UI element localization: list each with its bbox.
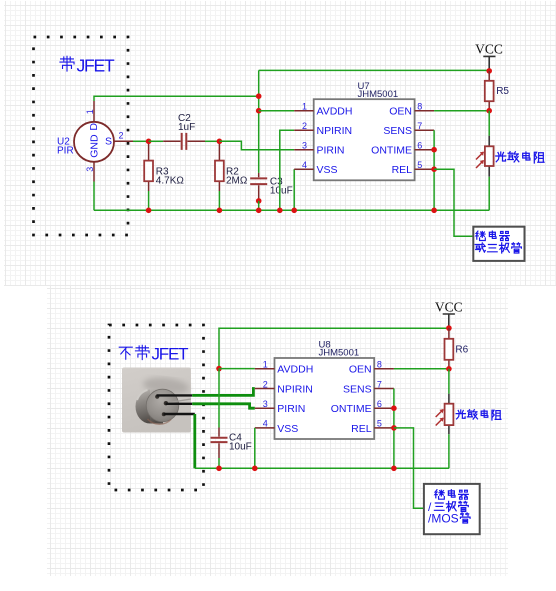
- node: REL tie: [391, 425, 397, 431]
- pin 1 of U2: [85, 101, 95, 122]
- wire U2 pin2 to node: [133, 140, 149, 142]
- svg-text:10uF: 10uF: [229, 441, 252, 452]
- U7 pin 7 SENS: [383, 121, 434, 137]
- svg-text:8: 8: [377, 360, 382, 370]
- wire SENS vertical down to ground rail: [393, 389, 395, 469]
- node: NPIRIN net on ground rail: [277, 208, 283, 214]
- wire U2 pin1 to VCC net vertical: [94, 96, 259, 101]
- svg-text:ONTIME: ONTIME: [331, 403, 372, 415]
- U8 pin 4 VSS: [255, 419, 299, 435]
- photoresistor (bottom): [436, 369, 454, 469]
- wire NPIRIN pin2 of U7 to ground rail: [280, 130, 294, 210]
- svg-text:VCC: VCC: [475, 41, 503, 56]
- U8 pin 1 AVDDH: [255, 360, 313, 376]
- svg-text:REL: REL: [392, 164, 413, 176]
- svg-text:1: 1: [302, 102, 307, 112]
- relay box (top): 继电器/或三极管: [473, 227, 524, 261]
- svg-text:PIRIN: PIRIN: [317, 145, 345, 157]
- wire C2 to R2 node: [205, 140, 219, 142]
- svg-text:VSS: VSS: [277, 423, 298, 435]
- svg-text:VCC: VCC: [435, 300, 463, 315]
- svg-text:6: 6: [377, 399, 382, 409]
- svg-text:SENS: SENS: [343, 383, 372, 395]
- PIR sensor U2 (circle symbol): [74, 122, 114, 162]
- svg-text:ONTIME: ONTIME: [371, 145, 412, 157]
- svg-text:REL: REL: [351, 423, 372, 435]
- grid lower sheet: [47, 286, 508, 576]
- label 不带JFET: [119, 345, 188, 364]
- capacitor C4: [211, 369, 252, 469]
- op-amp-IC U7 JHM5001 body: [314, 81, 415, 180]
- photoresistor (top): [476, 111, 494, 211]
- svg-text:R5: R5: [496, 86, 509, 97]
- label 光敏电阻 (bottom): [456, 410, 501, 420]
- ground rail (bottom circuit): [195, 467, 449, 469]
- node: C3 net on ground rail: [256, 208, 262, 214]
- svg-text:6: 6: [417, 141, 422, 151]
- svg-text:OEN: OEN: [389, 106, 412, 118]
- U7 pin 8 OEN: [389, 102, 434, 118]
- svg-text:3: 3: [85, 167, 95, 172]
- svg-text:5: 5: [377, 419, 382, 429]
- node: vertical meets pin1 wire: [256, 93, 262, 99]
- U7 pin 5 REL: [392, 160, 435, 176]
- wire REL to relay box: [434, 169, 473, 236]
- U8 pin 7 SENS: [343, 379, 394, 395]
- node: VCC junction: [486, 68, 492, 74]
- svg-text:/MOS: /MOS: [428, 511, 459, 525]
- svg-text:D: D: [88, 123, 100, 131]
- pin 3 of U2: [85, 162, 95, 182]
- svg-text:PIR: PIR: [57, 146, 74, 157]
- wire U2 pin3 down to ground rail: [93, 182, 95, 211]
- wire OEN to R5 bottom node: [434, 110, 489, 112]
- svg-text:2: 2: [302, 121, 307, 131]
- wire VSS pin4 of U7 to ground rail: [293, 169, 295, 210]
- node: junction R2 top: [217, 139, 223, 145]
- node: R5 bottom / OEN: [486, 108, 492, 114]
- sensor lead 2 (drawn black): [166, 403, 193, 405]
- wire R2 node to PIRIN pin 3 of U7 (jog): [219, 141, 294, 149]
- node: SENS net on ground rail: [431, 208, 437, 214]
- svg-text:4: 4: [302, 160, 307, 170]
- node: SENS net on ground rail: [391, 466, 397, 472]
- node: VSS net on ground rail: [252, 466, 258, 472]
- pin 2 of U2: [114, 131, 133, 142]
- svg-text:8: 8: [417, 102, 422, 112]
- svg-text:AVDDH: AVDDH: [277, 364, 313, 376]
- node: R6 bottom / OEN: [446, 366, 452, 372]
- svg-text:JHM5001: JHM5001: [358, 89, 399, 100]
- svg-text:OEN: OEN: [349, 364, 372, 376]
- svg-text:JHM5001: JHM5001: [319, 347, 360, 358]
- U2 reference label: [57, 137, 74, 157]
- sensor lead 3 (drawn black): [164, 413, 195, 415]
- wire AVDDH pin1 of U7: [259, 110, 295, 112]
- svg-text:PIRIN: PIRIN: [277, 403, 305, 415]
- PIR sensor photo: [122, 368, 191, 433]
- svg-text:S: S: [105, 136, 112, 148]
- svg-text:4.7KΩ: 4.7KΩ: [156, 176, 185, 187]
- svg-text:10uF: 10uF: [270, 185, 293, 196]
- svg-text:3: 3: [302, 141, 307, 151]
- capacitor C3: [250, 173, 292, 201]
- relay box (bottom): 继电器/三极管/MOS管: [424, 484, 480, 534]
- svg-text:R6: R6: [455, 344, 468, 355]
- wire AVDDH pin1 of U8: [219, 368, 255, 370]
- wire C3 to ground rail: [258, 201, 260, 210]
- U7 pin 6 ONTIME: [371, 141, 434, 157]
- svg-text:2: 2: [119, 131, 124, 141]
- wire OEN to R6 bottom node: [394, 368, 449, 370]
- U7 pin 1 AVDDH: [294, 102, 352, 118]
- wire SENS vertical down to ground rail: [433, 130, 435, 210]
- thick wire lead2 to PIRIN of U8: [192, 404, 255, 408]
- wire VSS pin4 of U8 to ground rail: [254, 428, 256, 468]
- wire REL to relay box (bottom): [394, 428, 424, 508]
- svg-text:JFET: JFET: [77, 56, 116, 76]
- svg-text:1uF: 1uF: [178, 122, 195, 133]
- node: junction R3 top: [146, 139, 152, 145]
- node: REL tie: [431, 166, 437, 172]
- resistor R2: [215, 141, 248, 210]
- dashed annotation box (without JFET): [109, 325, 204, 490]
- U8 pin 5 REL: [351, 419, 394, 435]
- U7 pin 2 NPIRIN: [294, 121, 352, 137]
- resistor R3: [144, 141, 184, 210]
- IC U8 JHM5001 body: [275, 340, 375, 439]
- svg-text:VSS: VSS: [317, 164, 338, 176]
- U8 pin 8 OEN: [349, 360, 394, 376]
- top rail to VCC (bottom circuit): [219, 328, 449, 368]
- U7 pin 3 PIRIN: [294, 141, 344, 157]
- node: VCC junction (bottom): [446, 325, 452, 331]
- grid upper sheet: [4, 1, 556, 286]
- wire node to C2: [149, 140, 164, 142]
- node: C3 bottom pin end: [256, 198, 262, 204]
- svg-text:NPIRIN: NPIRIN: [277, 383, 313, 395]
- svg-text:3: 3: [263, 399, 268, 409]
- node: vertical meets AVDDH wire: [256, 108, 262, 114]
- node: ONTIME tie: [391, 405, 397, 411]
- node: ONTIME tie: [431, 147, 437, 153]
- thick wire lead3 down to ground rail: [193, 414, 196, 468]
- sensor lead 1 (drawn black): [157, 394, 193, 396]
- node: C4 bottom on ground rail: [216, 466, 222, 472]
- thick wire lead1 to NPIRIN of U8: [192, 389, 255, 396]
- svg-text:7: 7: [377, 379, 382, 389]
- resistor R5: [485, 71, 510, 111]
- ground rail (bottom horizontal wire): [94, 209, 489, 211]
- label 带JFET: [60, 56, 115, 76]
- U8 pin 6 ONTIME: [331, 399, 394, 415]
- U7 pin 4 VSS: [294, 160, 337, 176]
- svg-text:JFET: JFET: [152, 345, 189, 364]
- top rail wire to VCC: [259, 69, 490, 71]
- svg-text:5: 5: [417, 160, 422, 170]
- power flag VCC (top): [475, 41, 503, 71]
- U8 pin 2 NPIRIN: [255, 379, 313, 395]
- label 光敏电阻 (top): [496, 152, 544, 163]
- node: AVDDH tie: [216, 366, 222, 372]
- VCC net vertical wire at x=258.7: [258, 70, 260, 172]
- svg-text:7: 7: [417, 121, 422, 131]
- power flag VCC (bottom): [435, 300, 463, 329]
- svg-text:1: 1: [85, 109, 95, 114]
- svg-text:GND: GND: [88, 134, 100, 158]
- svg-text:AVDDH: AVDDH: [317, 106, 353, 118]
- dashed annotation box (with JFET): [34, 37, 129, 235]
- svg-text:4: 4: [263, 419, 268, 429]
- svg-text:2: 2: [263, 379, 268, 389]
- U8 pin 3 PIRIN: [255, 399, 306, 415]
- node: junction R2 bottom: [217, 208, 223, 214]
- svg-text:1: 1: [263, 360, 268, 370]
- svg-text:SENS: SENS: [383, 125, 412, 137]
- node: VSS net on ground rail: [291, 208, 297, 214]
- resistor R6: [445, 328, 469, 369]
- svg-text:NPIRIN: NPIRIN: [317, 125, 353, 137]
- capacitor C2: [163, 113, 205, 150]
- svg-text:2MΩ: 2MΩ: [226, 176, 248, 187]
- node: junction R3 bottom: [146, 208, 152, 214]
